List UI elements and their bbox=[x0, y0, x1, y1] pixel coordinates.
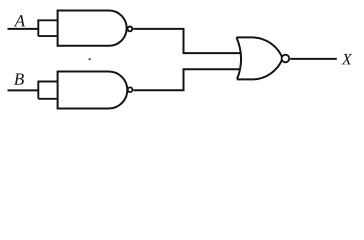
node B label bbox=[14, 73, 24, 84]
wire input-tie box U2 bbox=[38, 82, 57, 99]
wire input-tie box U1 bbox=[38, 20, 57, 36]
nand-gate U1 bbox=[58, 11, 127, 46]
speck artifact bbox=[89, 58, 91, 60]
wire U3 output bbox=[290, 58, 337, 60]
bubble U1 output bbox=[127, 26, 132, 31]
nand-gate U2 bbox=[58, 72, 128, 109]
nor-gate U3 body bbox=[237, 37, 283, 79]
node A label bbox=[14, 15, 25, 26]
wire U1 output to U3 top input bbox=[133, 29, 241, 53]
node X label bbox=[341, 54, 352, 64]
bubble U2 output bbox=[128, 87, 133, 92]
wire A input bbox=[8, 28, 39, 30]
bubble U3 output bbox=[282, 55, 290, 63]
wire U2 output to U3 bottom input bbox=[134, 69, 242, 90]
wire B input bbox=[8, 89, 39, 91]
